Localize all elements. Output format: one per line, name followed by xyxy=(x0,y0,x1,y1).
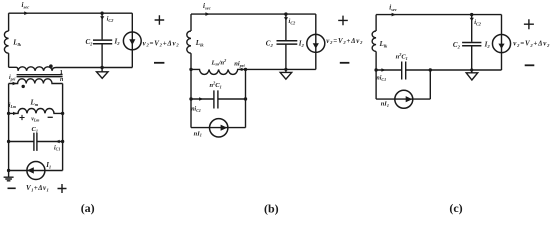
capacitor n2C1 plates b xyxy=(214,90,218,108)
svg-text:I2: I2 xyxy=(114,38,121,47)
arrow ni_C1 b (right) xyxy=(199,97,203,100)
inductor Llk a xyxy=(4,31,8,53)
wire left rail a upper xyxy=(8,13,10,31)
arrow i_C2 a xyxy=(100,16,104,19)
svg-text:Lm/n2: Lm/n2 xyxy=(211,58,227,67)
arrow i_C1 a (left) xyxy=(56,140,60,143)
svg-text:niC1: niC1 xyxy=(191,107,201,113)
big plus c xyxy=(524,19,534,29)
wire vertical rail b xyxy=(245,69,247,127)
svg-text:iC2: iC2 xyxy=(289,18,296,25)
inductor Lm row wire xyxy=(9,109,63,114)
ground c mid (triangle) xyxy=(466,70,478,80)
svg-text:Llk: Llk xyxy=(379,40,389,49)
transformer T1 primary winding (bottom) xyxy=(9,79,63,84)
svg-text:(b): (b) xyxy=(264,201,279,215)
arrow i_sec b xyxy=(205,12,209,16)
junction dots a xyxy=(100,12,103,15)
svg-text:n2C1: n2C1 xyxy=(210,81,222,90)
svg-text:I1: I1 xyxy=(45,161,51,170)
ground b mid (triangle) xyxy=(280,69,292,79)
svg-text:n2C1: n2C1 xyxy=(396,52,408,61)
inductor Lm/n2 b (bumps down) xyxy=(191,69,316,74)
wire left rail a lower xyxy=(8,84,10,171)
big plus b xyxy=(338,16,348,26)
junction dots b xyxy=(284,12,287,15)
arrow i_Lm a xyxy=(13,112,17,115)
inductor Llk c xyxy=(372,31,376,51)
svg-text:C1: C1 xyxy=(32,126,38,133)
wire C2 branch a upper xyxy=(101,13,103,39)
inductor Llk b xyxy=(187,31,191,53)
svg-text:Lm: Lm xyxy=(30,99,39,108)
arrow ni_C1 c (right) xyxy=(381,68,385,71)
svg-text:Llk: Llk xyxy=(12,38,22,47)
svg-text:isec: isec xyxy=(203,2,211,11)
wire mid rail c xyxy=(376,69,501,71)
svg-text:v2=V2+Δv2: v2=V2+Δv2 xyxy=(326,38,363,45)
wire right rail a lower xyxy=(62,84,64,171)
svg-text:nI1: nI1 xyxy=(381,100,389,107)
wire top rail a xyxy=(9,12,133,14)
wire C2 branch c upper xyxy=(471,15,473,42)
arrow i_C2 c xyxy=(470,18,474,21)
wire bottom row c xyxy=(376,98,430,100)
svg-text:C2: C2 xyxy=(86,38,94,47)
wire C2 branch c lower xyxy=(471,46,473,70)
wire through I2 a xyxy=(131,32,133,50)
current source I2 circle c xyxy=(492,35,510,53)
svg-text:isec: isec xyxy=(389,3,397,12)
svg-text:C2: C2 xyxy=(453,41,461,50)
current source nI1 circle b xyxy=(210,119,228,137)
wire left rail c lower xyxy=(375,51,377,99)
capacitor C2 plates b xyxy=(277,41,298,44)
transformer core lines xyxy=(17,75,63,77)
arrow i_C2 b xyxy=(284,17,288,20)
capacitor C1 row wire xyxy=(9,141,63,143)
wire left rail b upper xyxy=(190,14,192,31)
svg-text:iC2: iC2 xyxy=(474,19,481,26)
svg-text:niC1: niC1 xyxy=(376,76,386,82)
svg-text:I2: I2 xyxy=(298,39,305,48)
svg-text:I2: I2 xyxy=(484,41,491,50)
svg-text:ipri: ipri xyxy=(9,75,16,81)
arrow inside nI1 b (right) xyxy=(221,125,228,131)
arrow inside I2 a xyxy=(129,39,135,45)
svg-text:vLm: vLm xyxy=(31,116,39,122)
junction dots c xyxy=(470,13,473,16)
ground a mid (triangle) xyxy=(97,68,109,79)
arrow inside I2 c xyxy=(498,44,504,49)
wire right rail a upper xyxy=(131,13,133,67)
arrow ni_pri b (left) xyxy=(238,68,242,71)
current source I2 circle a xyxy=(123,32,141,50)
wire left rail a to transformer xyxy=(8,53,10,67)
wire C2 branch b lower xyxy=(285,44,287,69)
minus v1 a xyxy=(8,187,16,189)
wire C2 branch b upper xyxy=(285,14,287,40)
big minus a xyxy=(154,62,164,64)
svg-text:V1+Δv1: V1+Δv1 xyxy=(26,184,49,193)
big plus a xyxy=(155,15,165,25)
wire through I2 b xyxy=(315,34,317,52)
svg-text:v2=V2+Δv2: v2=V2+Δv2 xyxy=(513,41,550,48)
svg-text:1: 1 xyxy=(60,69,63,76)
capacitor n2C1 plates c xyxy=(402,62,406,80)
arrow inside I1 a (left) xyxy=(27,167,34,173)
capacitor C1 plates xyxy=(34,133,37,151)
svg-text:Llk: Llk xyxy=(195,39,205,48)
svg-text:iC1: iC1 xyxy=(54,145,60,151)
wire left rail c upper xyxy=(375,15,377,31)
svg-text:iC2: iC2 xyxy=(107,15,114,22)
wire through I2 c xyxy=(501,35,503,53)
svg-text:C2: C2 xyxy=(266,40,274,49)
svg-text:(a): (a) xyxy=(81,201,95,215)
arrow inside I2 b xyxy=(313,43,319,48)
current source I2 circle b xyxy=(307,34,325,52)
arrow i_sec c xyxy=(392,13,396,17)
svg-text:isec: isec xyxy=(22,1,30,10)
capacitor n2C1 row wire b xyxy=(191,98,246,100)
svg-text:(c): (c) xyxy=(449,201,462,215)
capacitor C2 plates a xyxy=(93,40,112,44)
ground a bottom left (bars) xyxy=(4,171,14,181)
arrow i_pri a xyxy=(13,82,17,85)
arrow inside nI1 c (right) xyxy=(406,96,413,102)
svg-text:iLm: iLm xyxy=(9,103,16,109)
big minus c xyxy=(525,64,535,66)
transformer T1 secondary winding (top) xyxy=(9,67,133,71)
wire top rail c xyxy=(376,14,501,16)
wire bottom row a xyxy=(9,170,63,172)
arrow i_sec a xyxy=(24,11,28,15)
wire right rail b xyxy=(315,14,317,69)
plus v1 a xyxy=(58,184,67,193)
big minus b xyxy=(340,62,350,64)
svg-text:v2=V2+Δv2: v2=V2+Δv2 xyxy=(143,40,180,47)
wire top rail b xyxy=(191,13,316,15)
wire right rail c xyxy=(501,15,503,70)
capacitor C2 plates c xyxy=(462,43,481,46)
wire vertical rail c xyxy=(429,70,431,99)
wire bottom row b xyxy=(191,127,246,129)
current source nI1 circle c xyxy=(395,90,413,108)
minus sign a small (vLm -) xyxy=(48,116,53,118)
wire left rail b middle xyxy=(190,53,192,127)
current source I1 circle xyxy=(27,162,45,180)
svg-text:nipri: nipri xyxy=(234,61,245,68)
plus sign a small (vLm +) xyxy=(19,115,24,120)
svg-text:nI1: nI1 xyxy=(194,130,202,137)
wire C2 branch a lower xyxy=(101,44,103,68)
svg-text:n: n xyxy=(60,77,64,83)
